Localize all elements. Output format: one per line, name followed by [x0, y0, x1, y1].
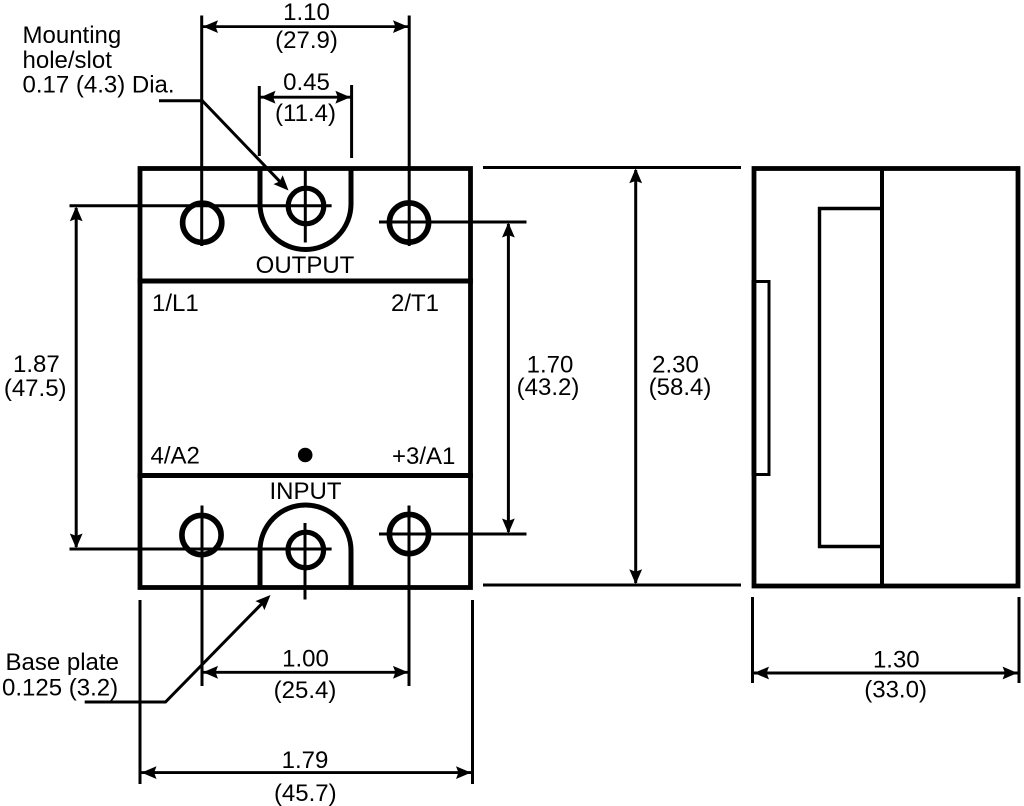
dim 1.10 right extension centerline through top-right hole	[408, 16, 411, 247]
bottom slot hole circle	[288, 532, 324, 568]
dim text (27.9)	[275, 27, 338, 54]
dim 1.30 right extension line	[1018, 597, 1021, 683]
dim 1.10 dimension line with arrows	[203, 20, 408, 33]
terminal label +3/A1	[392, 443, 455, 470]
bottom right mounting hole	[389, 514, 428, 553]
dim 0.45 dimension line with arrows	[261, 91, 351, 104]
terminal label 1/L1	[152, 290, 199, 317]
dim 2.30 bottom extension line	[483, 584, 741, 587]
dim text 1.30	[873, 647, 920, 674]
svg-text:(58.4): (58.4)	[649, 374, 712, 401]
dim text 2.30	[652, 352, 699, 379]
terminal label 4/A2	[151, 443, 200, 470]
dim text (43.2)	[517, 374, 580, 401]
dim text (33.0)	[864, 677, 927, 704]
svg-text:0.45: 0.45	[283, 69, 330, 96]
dim text 1.00	[282, 646, 329, 673]
side view outer body rectangle	[754, 169, 1018, 587]
svg-text:(33.0): (33.0)	[864, 677, 927, 704]
svg-text:1/L1: 1/L1	[152, 290, 199, 317]
top left mounting hole	[183, 203, 222, 242]
callout text Base plate 0.125 (3.2)	[2, 649, 119, 702]
dim 2.30 dimension line with arrows	[629, 168, 642, 584]
dim 2.30 top extension line	[483, 166, 741, 169]
svg-text:INPUT: INPUT	[270, 478, 342, 505]
dim 1.79 right extension line	[471, 600, 474, 784]
svg-text:0.17 (4.3) Dia.: 0.17 (4.3) Dia.	[23, 71, 175, 98]
bottom-left hole centerline	[201, 506, 204, 687]
base plate leader line with arrow	[85, 590, 275, 702]
mounting hole leader line with arrow	[159, 101, 293, 195]
front view outer body rectangle	[140, 169, 471, 588]
svg-text:(27.9): (27.9)	[275, 27, 338, 54]
LED indicator dot	[298, 448, 313, 463]
bottom-right hole centerline	[408, 506, 411, 687]
dim 1.79 dimension line with arrows	[142, 766, 472, 779]
svg-text:(25.4): (25.4)	[274, 677, 337, 704]
svg-text:0.125 (3.2): 0.125 (3.2)	[2, 675, 118, 702]
svg-text:hole/slot: hole/slot	[23, 47, 113, 74]
dim text 1.10	[283, 0, 330, 26]
callout text Mounting hole/slot 0.17 (4.3) Dia.	[23, 22, 175, 98]
dim 1.30 dimension line with arrows	[754, 667, 1018, 680]
input section divider line	[138, 473, 473, 478]
svg-text:(45.7): (45.7)	[274, 780, 337, 806]
svg-text:OUTPUT: OUTPUT	[256, 252, 355, 279]
dim 1.87 dimension line with arrows	[70, 206, 83, 548]
dim 1.10 left extension centerline through top-left hole	[200, 16, 203, 247]
dim text (11.4)	[275, 100, 336, 127]
side view terminal cover recess	[820, 209, 883, 547]
svg-text:(43.2): (43.2)	[517, 374, 580, 401]
dim 1.70 top extension line through top-right hole	[379, 221, 527, 224]
dim text 1.70	[527, 352, 574, 379]
dim 1.87 top extension line through slot center	[70, 204, 332, 207]
dim text (25.4)	[274, 677, 337, 704]
svg-text:(11.4): (11.4)	[275, 100, 336, 127]
svg-text:1.87: 1.87	[13, 351, 60, 378]
svg-text:2/T1: 2/T1	[391, 290, 439, 317]
dim text 0.45	[283, 69, 330, 96]
svg-text:1.79: 1.79	[282, 747, 329, 774]
dim 0.45 right extension line	[350, 85, 353, 158]
top right mounting hole	[389, 203, 428, 242]
dim 1.70 dimension line with arrows	[502, 223, 515, 534]
bottom slot vertical centerline	[304, 523, 307, 600]
svg-text:1.30: 1.30	[873, 647, 920, 674]
terminal label 2/T1	[391, 290, 439, 317]
dim 1.70 bottom extension line through bottom-right hole	[379, 533, 527, 536]
top mounting slot U-shape	[260, 167, 351, 250]
svg-text:(47.5): (47.5)	[4, 375, 67, 402]
svg-text:1.10: 1.10	[283, 0, 330, 26]
svg-text:Mounting: Mounting	[23, 22, 122, 49]
OUTPUT label	[256, 252, 355, 279]
bottom mounting slot arch	[260, 505, 351, 589]
output section divider line	[138, 279, 473, 284]
dim text (58.4)	[649, 374, 712, 401]
dim 1.30 left extension line	[751, 597, 754, 683]
dim text (45.7)	[274, 780, 337, 806]
dim text (47.5)	[4, 375, 67, 402]
top slot vertical centerline	[304, 170, 307, 243]
svg-text:4/A2: 4/A2	[151, 443, 200, 470]
side view label strip rectangle	[753, 282, 769, 475]
dim text 1.79	[282, 747, 329, 774]
dim 0.45 left extension line	[258, 86, 261, 156]
bottom left mounting hole	[182, 515, 221, 554]
side view base-body divider line	[880, 169, 884, 584]
svg-text:1.00: 1.00	[282, 646, 329, 673]
dim 1.79 left extension line	[139, 600, 142, 784]
svg-text:+3/A1: +3/A1	[392, 443, 455, 470]
dim 1.00 dimension line with arrows	[203, 666, 408, 679]
dim text 1.87	[13, 351, 60, 378]
dim 1.87 bottom extension line through bottom slot center	[70, 548, 332, 551]
svg-text:Base plate: Base plate	[6, 649, 119, 676]
INPUT label	[270, 478, 342, 505]
top slot hole circle	[288, 188, 324, 224]
